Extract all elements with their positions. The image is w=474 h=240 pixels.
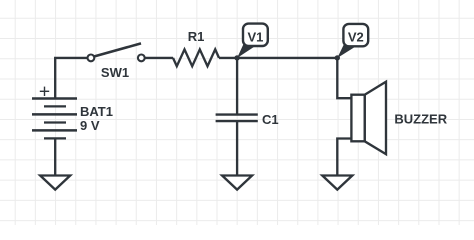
wire battery to ground (54, 138, 56, 175)
net flag V1 (237, 24, 268, 58)
svg-text:9 V: 9 V (80, 118, 100, 133)
junction node V1 (234, 55, 239, 60)
wire resistor to node V1 (219, 57, 237, 59)
switch SW1 (88, 43, 145, 61)
battery BAT1 (32, 99, 77, 139)
junction node V2 (335, 55, 340, 60)
buzzer (351, 82, 386, 155)
wire switch to resistor (145, 57, 173, 59)
svg-text:V2: V2 (348, 30, 364, 45)
resistor R1 (173, 49, 219, 66)
svg-text:R1: R1 (188, 29, 205, 44)
wire capacitor to ground (236, 121, 238, 175)
net flag V2 (337, 24, 368, 58)
wire buzzer to ground (337, 139, 351, 176)
wire node V1 to node V2 (237, 57, 337, 59)
ground (capacitor) (222, 176, 252, 190)
wire battery top to switch (55, 58, 87, 99)
capacitor C1 (216, 115, 258, 122)
wire node V2 to buzzer (337, 58, 351, 98)
ground (battery) (40, 176, 70, 190)
battery plus sign (40, 87, 49, 96)
svg-text:SW1: SW1 (101, 65, 129, 80)
svg-text:BAT1: BAT1 (80, 104, 113, 119)
wire node V1 to capacitor (236, 58, 238, 115)
ground (buzzer) (322, 176, 352, 190)
svg-text:C1: C1 (262, 112, 279, 127)
svg-text:V1: V1 (247, 29, 263, 44)
svg-text:BUZZER: BUZZER (394, 112, 447, 127)
